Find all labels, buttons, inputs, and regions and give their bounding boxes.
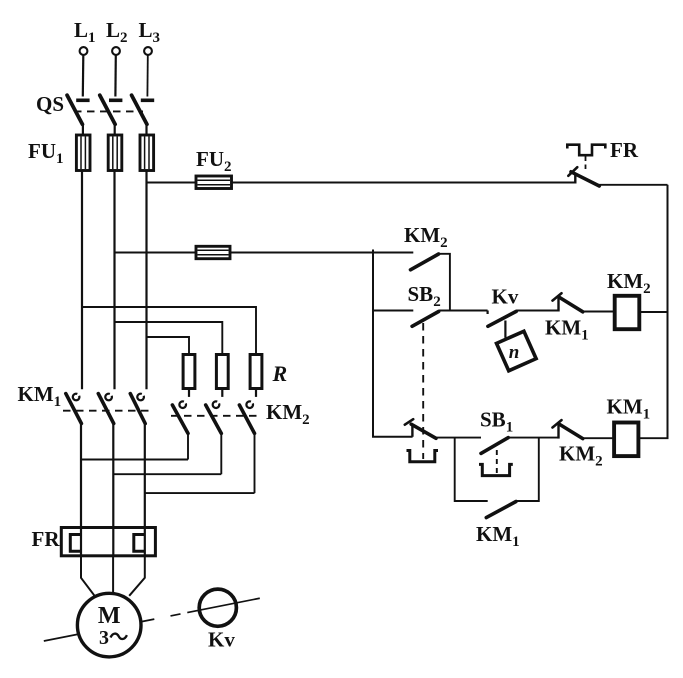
relay FR label [610,138,639,162]
svg-text:FR: FR [32,527,61,551]
contact KM1 NO label [476,522,520,550]
button SB2 NC tick [405,419,413,425]
contactor KM1 main contact 3 [130,394,145,424]
speed sensor box [496,331,536,371]
wire right bus [667,185,669,438]
FR NC contact riser [574,174,576,184]
wire KM2 pole2 to merge [220,433,222,474]
terminal L3 [144,47,152,55]
wire left control bus [373,250,413,437]
contactor KM1 main contact 1 [66,394,82,424]
button SB1 actuator bracket [479,464,513,475]
wire KM2 aux to corner [439,254,450,311]
wire L2 to QS [114,55,117,96]
wire phase2 through FR box [112,528,114,556]
wire B from FU2 to KM2 aux contact [230,252,413,254]
Kv actuator link [504,321,506,338]
wire phase3 FU1 to KM1 [145,171,147,390]
wire A from phase3 to FU2 [147,182,197,184]
wire SB1 to KM2 NC [508,437,558,439]
wire motor lead 3 [129,556,145,596]
switch QS pole 2 fixed bar [109,99,122,103]
wire KM1 NC to KM2 coil [583,311,615,313]
fuse FU1 element 2 [108,124,122,171]
contact Kv NO blade [488,311,516,326]
wire branch phase2 to R2 [115,322,223,355]
node L2 label [106,18,128,46]
switch QS pole 1 blade [67,95,82,124]
svg-text:M: M [98,603,121,629]
button SB2 NC blade [411,424,436,438]
wire merge 2 [113,473,221,475]
svg-text:Kv: Kv [208,628,235,652]
FR heater element 1 [70,535,81,552]
wire SB2 NC to SB1 [435,437,481,439]
speed relay Kv circle [199,589,236,626]
contactor KM2 main contact 1 [172,401,188,433]
coil KM1 [614,423,638,457]
contact KM1 NO blade [486,502,516,518]
FR linkage dashed [585,157,587,173]
wire motor lead 1 [81,556,95,596]
fuse FU2 element 1 [196,176,232,189]
wire KM1 NO loop left [455,438,488,501]
motor 3-phase label [99,627,127,649]
svg-text:n: n [509,342,520,363]
wire phase3 lower lead [144,424,146,528]
wire KM2 coil to right bus [639,311,667,313]
svg-text:QS: QS [36,92,64,116]
svg-text:Kv: Kv [492,285,519,309]
wire phase2 lower lead [112,424,114,528]
coil KM2 [615,296,640,329]
node L3 label [139,18,161,46]
contactor KM1 main contact 2 [98,394,113,424]
wire KM1 NO loop right [516,438,539,501]
contact KM2 interlock label [559,442,603,470]
contactor KM1 main label [18,382,62,410]
QS linkage dashed [74,110,143,112]
KM2 NC tick [553,420,562,427]
contact KM1 interlock label [545,316,589,344]
wire branch phase3 to R1 [147,337,190,355]
KM1 NC riser [557,298,559,312]
node L1 label [74,18,96,46]
wire phase1 through FR box [80,528,82,556]
button SB2 actuator bracket [407,451,439,462]
wire Kv to KM1 NC [516,310,558,312]
resistor R element 3 [250,355,262,397]
thermal relay FR heater label [32,527,61,551]
wire phase3 through FR box [144,528,146,556]
FR NC contact blade [571,172,599,186]
wire KM2 pole3 to merge [254,433,256,493]
fuse FU2 element 2 [196,246,230,258]
wire SB2 to Kv contact [439,310,488,312]
terminal L2 [112,47,120,55]
KM1 NC tick [553,293,562,300]
wire branch phase1 to R3 [82,307,256,355]
switch QS pole 2 blade [100,95,115,124]
resistor R element 2 [216,355,228,397]
switch QS label [36,92,64,116]
switch QS pole 3 blade [132,95,147,124]
KM2 NC riser [557,424,559,438]
svg-text:3: 3 [99,627,109,649]
button SB2 NO blade [412,312,439,327]
switch QS pole 3 fixed bar [141,99,154,103]
motor shaft dash-dot line [44,598,260,641]
fuse FU2 label [196,147,232,175]
button SB2 label [408,282,441,310]
contact Kv label [492,285,519,309]
terminal L1 [80,47,88,55]
speed relay Kv label [208,628,235,652]
KM1 linkage dashed [63,410,149,412]
contact KM2 aux NO blade [411,254,439,270]
contactor KM2 main contact 2 [206,401,222,433]
motor M label [98,603,121,629]
wire L3 to QS [146,55,148,96]
wire A from FU2 to FR contact [232,182,576,184]
wire FR contact to right bus [599,184,668,186]
SB1 linkage dashed [496,450,498,474]
resistor R label [272,361,288,386]
switch QS pole 1 fixed bar [76,99,89,103]
thermal relay FR sensing element [567,145,605,156]
wire KM1 coil to right bus [638,437,668,439]
coil KM2 label [607,269,651,297]
contact KM2 aux NO label [404,223,448,251]
button SB1 NO blade [481,438,508,454]
KM1 NC blade [559,297,583,312]
wire phase1 FU1 to KM1 [81,171,83,390]
svg-text:FR: FR [610,138,639,162]
wire KM2 pole1 to merge [187,433,189,459]
wire KM2 NC to KM1 coil [583,437,615,439]
motor M circle [77,593,141,657]
KM2 linkage dashed [171,415,262,417]
coil KM1 label [607,395,651,423]
contactor KM2 main label [266,400,310,428]
wire phase2 FU1 to KM1 [113,171,115,390]
fuse FU1 label [28,139,64,167]
wire motor lead 2 [112,556,114,594]
thermal relay FR heater box [61,528,155,556]
wire phase1 lower lead [80,424,82,528]
wire SB2 rung left [373,310,413,312]
svg-text:R: R [272,361,288,386]
wire merge 1 [81,459,188,461]
button SB2 NC riser [411,425,413,437]
contactor KM2 main contact 3 [239,401,254,433]
FR heater element 2 [134,535,145,552]
KM2 NC blade [559,424,583,439]
wire Kv left terminal tip [487,311,489,315]
fuse FU1 element 1 [76,124,90,171]
wire L1 to QS [82,55,85,96]
FR NC contact tick [568,167,577,176]
fuse FU1 element 3 [140,124,154,171]
wire merge 3 [145,492,255,494]
resistor R element 1 [183,355,195,397]
button SB1 label [480,408,513,436]
speed sensor n label [509,342,520,363]
SB2 linkage dashed [422,323,424,459]
wire B from phase2 to FU2 [115,252,197,254]
